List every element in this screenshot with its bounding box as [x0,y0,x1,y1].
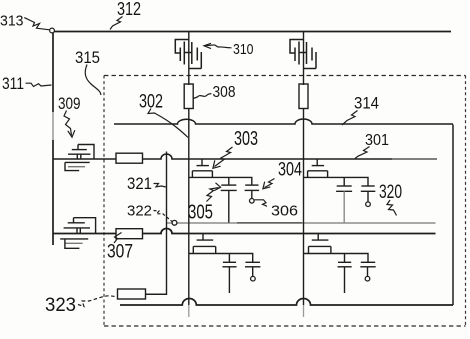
wire column 1 bit line stub below [188,305,190,317]
label 311 leader [26,83,52,86]
label 301 leader [355,147,370,159]
label 312 leader [110,17,123,30]
dashed box 315 top edge [104,75,466,77]
wire row line 1 faded tail [392,158,437,160]
svg-text:314: 314 [354,94,379,113]
terminal 306 circle row1 col1 [250,199,255,204]
transistor 310 column 2 [290,40,316,69]
svg-text:321: 321 [127,174,152,193]
wire 321 vertical [146,152,167,295]
label 322 leader [154,211,173,222]
label 323 leader [78,296,117,307]
resistor 308 column 1 [184,84,193,109]
memory cell row1 col1 : transistor 303 [189,159,252,185]
transistor 307 row driver 2 [60,218,95,249]
svg-text:302: 302 [139,92,163,113]
label 307 leader [114,233,122,244]
label 304 leader with arrowhead [265,179,275,188]
label 308 leader [193,94,212,99]
terminal circle row2 col1 [251,276,256,281]
transistor 310 column 1 [175,40,201,69]
resistor 308 column 2 [299,84,308,109]
wire column 2 bit line [303,32,305,306]
label 302 leader [148,109,188,138]
capacitor row2 col2 [338,254,352,294]
wire 314 horizontal line with crossover hops [114,119,453,124]
node 313 [50,28,55,33]
svg-text:315: 315 [75,48,100,67]
wire 312 top supply line [52,31,451,33]
wire column 2 bit line stub below [303,305,305,317]
svg-text:310: 310 [233,41,254,58]
capacitor 304 row1 col1 [245,185,260,198]
dashed box 315 right edge [465,76,467,327]
label 303 leader with arrowhead [215,147,233,167]
resistor 323 [118,289,146,299]
svg-text:309: 309 [58,94,81,113]
svg-text:320: 320 [379,182,402,203]
svg-text:313: 313 [0,14,24,30]
capacitor row2 col1 [222,254,236,294]
wire column 1 bit line [188,32,190,306]
dashed box 315 bottom edge [104,325,466,327]
wire 311 faded segment [52,112,54,140]
svg-text:323: 323 [45,295,76,316]
label 315 leader [85,65,101,96]
wire row line 2 [53,229,436,234]
capacitor row1 col2 (to 320 line) [336,177,352,222]
svg-text:306: 306 [271,203,298,220]
label 320 leader [387,200,397,216]
label 313 leader [24,18,49,30]
label 306 leader [255,200,268,207]
capacitor row2 col2 open [360,262,375,276]
wire bottom line with crossover hops [120,299,453,305]
terminal circle row2 col2 [365,276,370,281]
label 305 leader with arrowhead [207,188,219,202]
svg-text:311: 311 [2,74,24,93]
wire 320 faint common line [167,222,436,224]
label 321 leader [154,184,166,188]
svg-text:305: 305 [188,202,213,224]
transistor 309 row driver 1 [65,145,94,171]
wire 311 left vertical supply [52,33,54,245]
wire right edge vertical [452,125,454,306]
capacitor 305 row1 col1 [221,177,237,222]
svg-text:304: 304 [278,160,302,181]
resistor row 2 [116,229,143,239]
svg-text:312: 312 [117,0,141,19]
memory cell row1 col2 : transistor [304,159,369,186]
label 309 leader with arrowhead [64,111,72,136]
wire 320 faint line darker segment [237,222,302,224]
svg-text:307: 307 [107,242,133,263]
terminal circle row1 col2 [366,202,371,207]
svg-text:322: 322 [127,203,152,220]
svg-text:301: 301 [365,132,389,149]
svg-text:303: 303 [234,128,258,150]
label 314 leader [342,111,358,126]
label 310 leader with arrowhead [205,45,232,48]
memory cell row2 col1 : transistor [189,234,253,263]
dashed box 315 left edge [103,76,105,327]
svg-text:308: 308 [213,84,236,101]
memory cell row2 col2 : transistor [304,234,369,263]
wire resistor 323 to line 321 [146,293,167,295]
wire row line 1 [53,154,392,159]
node 322 open circle [172,220,177,225]
capacitor row1 col2 open [361,186,376,202]
capacitor row2 col1 open [245,262,260,276]
resistor row 1 [116,153,143,163]
